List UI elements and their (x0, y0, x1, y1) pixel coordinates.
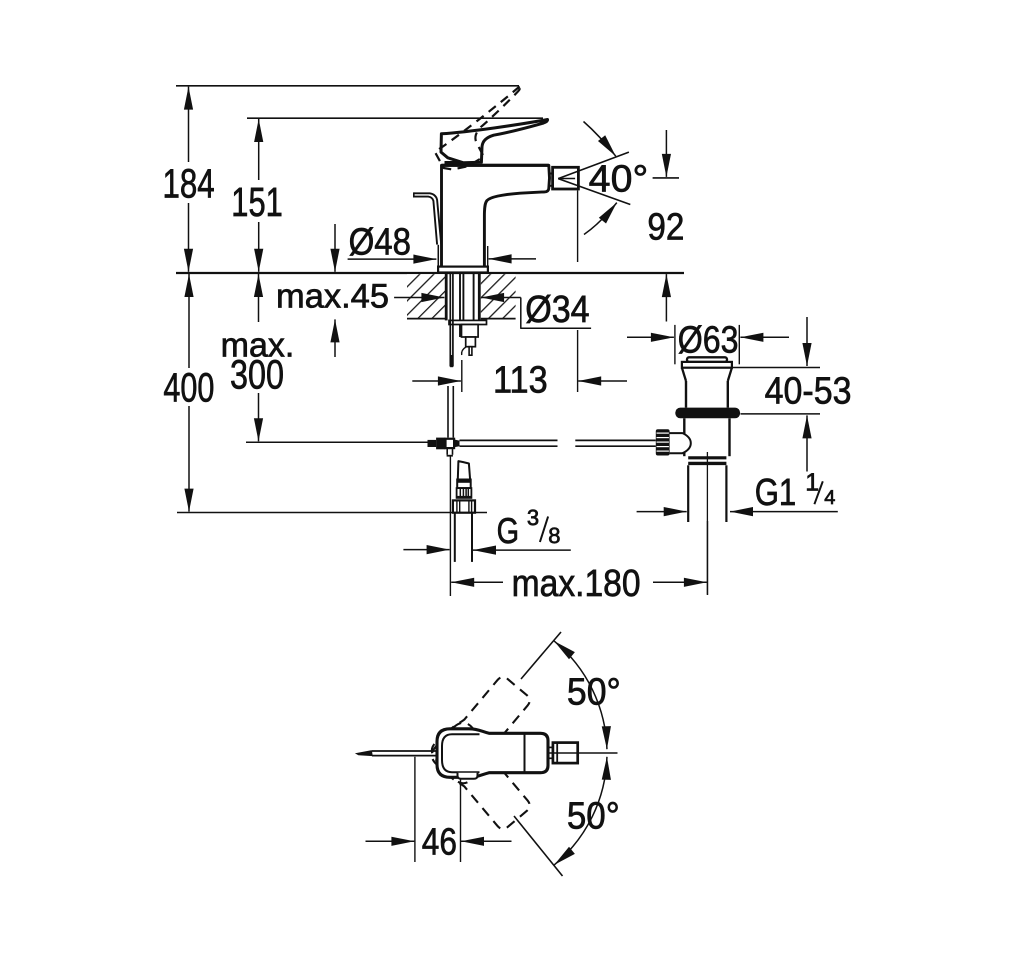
faucet top view body (437, 729, 548, 778)
outlet stub (469, 347, 472, 356)
svg-text:40-53: 40-53 (765, 370, 852, 412)
svg-text:1: 1 (805, 468, 819, 496)
handle boss shadow band (445, 161, 467, 165)
dim 151 (258, 119, 260, 180)
svg-text:max.180: max.180 (512, 563, 641, 605)
dim Ø48 leader+arrows (348, 258, 437, 260)
plug cap (687, 357, 727, 362)
tailpipe walls (687, 465, 689, 522)
lift rod (side view) (414, 193, 441, 244)
50° upper slant line (521, 632, 561, 679)
svg-text:92: 92 (647, 207, 684, 249)
handle swing outline +50° (dashed) (427, 672, 536, 788)
40-53 reference lines (732, 367, 820, 369)
40° leader arcs (584, 122, 616, 157)
threaded shank outer walls (445, 273, 448, 321)
pop-up rod below deck (449, 273, 451, 367)
spout neck (550, 173, 553, 175)
dim G3/8 (403, 549, 449, 551)
svg-text:300: 300 (230, 352, 284, 398)
plug disc (682, 362, 732, 368)
svg-text:40°: 40° (589, 158, 649, 200)
knurled nut (656, 429, 670, 455)
hose nut (453, 500, 475, 512)
deck section hatch right (481, 274, 516, 318)
horizontal rod to drain (double line) (460, 439, 558, 441)
dim Ø34 arrows (394, 297, 444, 299)
base flange (438, 267, 488, 273)
faucet body outline (442, 165, 550, 266)
lever handle raised position (dashed) (427, 86, 541, 177)
184 top reference line (176, 85, 519, 87)
dim Ø63 (627, 336, 674, 338)
dim 40-53 arrows (806, 317, 808, 366)
svg-text:50°: 50° (567, 672, 621, 714)
shank collar (449, 320, 487, 324)
svg-text:Ø63: Ø63 (678, 319, 739, 361)
hose threaded band (457, 488, 472, 498)
svg-text:Ø48: Ø48 (349, 222, 411, 264)
thread relief rings (688, 456, 726, 459)
50° lower arc (554, 757, 607, 865)
svg-text:Ø34: Ø34 (525, 289, 589, 331)
svg-text:G: G (497, 510, 519, 551)
connection block step 2 (466, 337, 476, 347)
svg-text:50°: 50° (567, 795, 620, 837)
G3 fraction slash (540, 517, 548, 543)
svg-text:4: 4 (824, 487, 835, 509)
linkage rod vertical (447, 386, 449, 438)
spout outlet extension line (577, 191, 579, 263)
G1 fraction slash (814, 481, 822, 504)
151 reference line (247, 117, 543, 119)
connection block step 1 (462, 325, 479, 338)
lever top view inner line (442, 734, 480, 772)
dim max.300 (258, 274, 260, 322)
deck section hatch left (407, 274, 445, 318)
aerator top view (553, 743, 578, 764)
50° upper arc (554, 641, 607, 749)
400 bottom reference line (177, 512, 487, 514)
dim 46 (414, 757, 416, 862)
svg-text:8: 8 (548, 523, 560, 548)
lever handle (solid) (441, 120, 548, 163)
svg-text:184: 184 (163, 160, 215, 206)
drain body lower walls (683, 418, 685, 456)
cross fitting right wedge (454, 440, 459, 448)
Ø34 leader (521, 298, 591, 329)
lift rod lower / Ø48 extension (437, 245, 439, 267)
side port boss (670, 433, 691, 453)
handle swing outline -50° (dashed) (427, 718, 536, 834)
svg-text:3: 3 (527, 505, 539, 530)
dim 400 (188, 274, 190, 368)
lift rod top view (372, 750, 437, 752)
hose band 1 (457, 480, 471, 489)
svg-text:113: 113 (493, 360, 548, 402)
spout height tick line (653, 177, 679, 179)
rod level line (max.300 bottom reference) (246, 441, 428, 443)
cross fitting small left collar (428, 440, 437, 447)
aerator square (553, 167, 579, 189)
seal ring (black) (675, 408, 740, 419)
dim max.45 (334, 224, 336, 272)
funnel sides (682, 368, 686, 381)
deck / mounting surface line (176, 272, 684, 274)
50° lower slant line (514, 816, 563, 876)
svg-text:G1: G1 (755, 472, 797, 514)
svg-text:46: 46 (422, 822, 457, 864)
pivot tab (458, 773, 478, 779)
dim 92 (665, 130, 667, 177)
body top edge (thick) (442, 164, 549, 167)
40° angle rays (558, 152, 629, 179)
dim 184 (188, 87, 190, 162)
svg-text:151: 151 (231, 179, 282, 225)
drain body upper walls (685, 381, 687, 408)
svg-text:max.45: max.45 (276, 278, 389, 316)
svg-text:400: 400 (163, 365, 214, 411)
dim max.180 (449, 456, 451, 596)
lift rod knob tip (356, 751, 372, 756)
supply pipe (454, 513, 456, 562)
top view centerline (547, 752, 618, 754)
hose elbow (458, 461, 470, 479)
dim 113 (412, 380, 461, 382)
cross fitting left flange (436, 438, 445, 450)
drain centerline (706, 452, 708, 595)
fitting bottom stub (446, 448, 448, 455)
shank inner tubes (459, 273, 461, 337)
cross fitting body (446, 439, 455, 448)
dim G1 1/4 (637, 511, 687, 513)
body front edge line (524, 733, 526, 772)
